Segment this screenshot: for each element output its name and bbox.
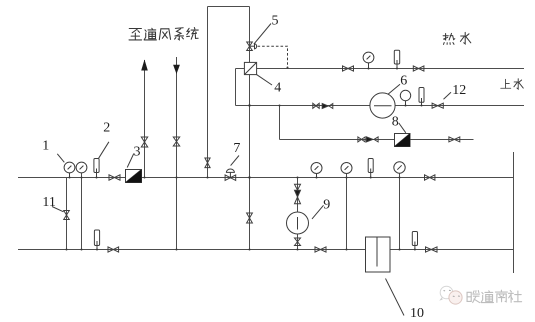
node riser B junction on P5 xyxy=(176,177,178,179)
arrow up to ventilation on riser A xyxy=(141,60,148,71)
svg-text:9: 9 xyxy=(323,197,330,212)
leader label 11 xyxy=(52,207,64,212)
wire branch pipe P3 xyxy=(280,139,474,141)
valve on P1 left xyxy=(343,66,354,71)
thermometer on P2 xyxy=(419,88,424,103)
wire shaft left riser xyxy=(207,7,209,178)
meter box 4 on shaft right riser xyxy=(244,62,256,74)
svg-text:2: 2 xyxy=(103,120,110,135)
wire drop leg x346 xyxy=(346,174,348,250)
watermark logo: two chat bubbles xyxy=(440,286,462,304)
wire supply-water pipe P2 xyxy=(236,105,525,107)
watermark text: 暖通南社 xyxy=(467,290,522,302)
node shaft right riser junction on P5 xyxy=(248,176,250,178)
check valve on P3 xyxy=(366,137,373,142)
valve on P6 left xyxy=(108,247,119,252)
text: 上水 (supply water) xyxy=(501,79,524,89)
node branch P3 tee on P2 xyxy=(279,105,281,107)
pressure gauge on drop leg x346 xyxy=(341,163,352,174)
valve on P5 right xyxy=(425,175,435,180)
check valve group above pump 9 xyxy=(295,184,301,190)
leader label 3 xyxy=(127,154,134,168)
node pump 9 branch tee on P5 xyxy=(297,177,299,179)
filter 8 xyxy=(395,134,411,147)
pressure gauge pair 1 : right gauge xyxy=(76,162,87,173)
svg-text:10: 10 xyxy=(410,306,424,321)
node riser B tee on P6 xyxy=(176,249,178,251)
valve on shaft left riser xyxy=(205,158,210,168)
valve on P1 right xyxy=(413,66,424,71)
valve on riser B xyxy=(173,137,179,146)
node shaft right riser tee on P6 xyxy=(249,249,251,251)
wire gauge drop leg x66 xyxy=(66,178,68,250)
wire bottom return header P6 right segment xyxy=(390,249,514,251)
shutoff valve on P3 xyxy=(358,137,365,142)
node shaft riser crossing on P2 xyxy=(248,104,250,106)
node gauge 1b stem tee on P5 xyxy=(81,177,83,179)
node drop leg x399 tee on P6 xyxy=(399,249,401,251)
text: 热水 (hot water) xyxy=(443,32,471,44)
leader label 4 xyxy=(257,75,272,85)
valve below pump 9 xyxy=(295,238,301,246)
circulating pump 6 xyxy=(370,93,395,118)
leader label 10 xyxy=(386,279,405,316)
valve on P6 right xyxy=(426,247,438,252)
node gauge stem tee on P5 xyxy=(316,177,318,179)
svg-text:8: 8 xyxy=(392,114,399,129)
arrow down on riser B xyxy=(173,65,180,74)
leader label 9 xyxy=(312,205,324,219)
node thermometer 2 tee on P5 xyxy=(96,177,98,179)
leader label 5 xyxy=(254,24,271,45)
node valve 7 junction on P5 xyxy=(229,177,231,179)
leader label 12 xyxy=(444,92,452,99)
valve on P5 left xyxy=(109,175,120,180)
valve 11 on drop leg x66 xyxy=(64,211,70,220)
thermometer on P6 left xyxy=(94,230,99,246)
node thermometer tee on P5 xyxy=(370,177,372,179)
wire P1-P2 left connector xyxy=(235,69,237,106)
text: 至通风系统 (to ventilation system) xyxy=(129,28,198,40)
wire main supply header P5 xyxy=(18,177,514,179)
node thermometer tee on P2 xyxy=(421,105,423,107)
node small gauge tee on P2 xyxy=(405,105,407,107)
valve on P6 middle xyxy=(315,247,326,252)
pressure gauge on drop leg x399 xyxy=(394,162,405,173)
node thermometer tee on P6 xyxy=(414,249,416,251)
svg-text:3: 3 xyxy=(134,145,141,160)
valve on riser A xyxy=(141,137,147,147)
wire shaft top connector xyxy=(208,6,250,8)
small gauge on P2 xyxy=(405,101,407,106)
wire bottom return header P6 left segment xyxy=(18,249,366,251)
wire right end riser xyxy=(513,152,515,273)
svg-text:6: 6 xyxy=(400,74,407,89)
node drop leg x66 tee on P6 xyxy=(66,249,68,251)
wire hot-water pipe P1 xyxy=(257,68,524,70)
node drop leg x81 tee on P6 xyxy=(81,249,83,251)
valve on shaft right riser lower xyxy=(247,213,253,223)
leader label 2 xyxy=(99,142,109,159)
wire hot-water pipe P1 left stub xyxy=(236,68,245,70)
node control line junction on P1 xyxy=(287,67,289,69)
wire pump 9 branch xyxy=(297,178,299,250)
node thermometer tee on P1 xyxy=(396,68,398,70)
node shaft left riser tee on P5 xyxy=(207,177,209,179)
leader label 6 xyxy=(388,84,400,94)
leader label 8 xyxy=(399,123,406,133)
node thermometer tee on P6 xyxy=(96,249,98,251)
pressure gauge on P5 mid xyxy=(316,174,318,178)
solenoid valve 5 on shaft right riser xyxy=(247,42,253,51)
thermometer on P5 right xyxy=(368,159,373,173)
wire ventilation riser B xyxy=(176,57,178,250)
svg-text:4: 4 xyxy=(274,81,281,96)
svg-text:11: 11 xyxy=(42,195,55,210)
node drop leg x346 tee on P6 xyxy=(346,249,348,251)
valve 12 on P2 xyxy=(432,103,443,108)
node gauge 1a stem tee on P5 xyxy=(69,177,71,179)
globe valve 7 xyxy=(225,175,236,181)
svg-text:7: 7 xyxy=(233,141,240,156)
filter 3 xyxy=(126,170,142,183)
node gauge stem tee on P1 xyxy=(368,68,370,70)
wire shaft right riser xyxy=(249,7,251,250)
node riser A tee on P5 xyxy=(144,177,146,179)
thermometer on P1 xyxy=(394,50,399,64)
node pump 9 branch tee on P6 xyxy=(297,249,299,251)
thermometer on P6 right xyxy=(412,232,417,246)
leader label 1 xyxy=(57,154,64,163)
wire ventilation riser A xyxy=(144,60,146,178)
valve on P3 right xyxy=(449,137,460,142)
thermometer 2 on P5 xyxy=(94,159,99,173)
shutoff valve on P2 xyxy=(313,103,319,108)
expansion tank 10 xyxy=(366,237,391,272)
wire drop leg x399 xyxy=(399,174,401,250)
wire gauge drop leg x81 xyxy=(81,173,83,250)
pressure gauge on P1 xyxy=(368,63,370,69)
svg-text:5: 5 xyxy=(272,14,279,29)
dashed control line from valve 5 to P1 xyxy=(258,46,288,67)
check valve on P2 xyxy=(322,104,328,109)
circulating pump 9 xyxy=(287,212,309,234)
pressure gauge pair 1 : left gauge xyxy=(69,173,71,178)
svg-text:12: 12 xyxy=(452,83,466,98)
svg-text:1: 1 xyxy=(42,138,49,153)
wire P2-P3 connector xyxy=(279,106,281,140)
leader label 7 xyxy=(231,156,239,166)
node drop leg x346 junction on P5 xyxy=(346,177,348,179)
node drop leg x399 junction on P5 xyxy=(399,177,401,179)
